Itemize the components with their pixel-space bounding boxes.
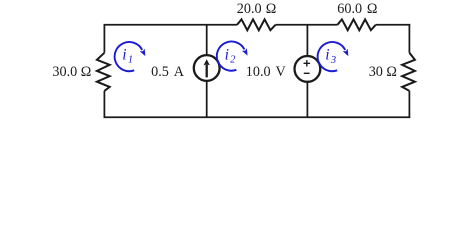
wire branch voltage source: [306, 25, 308, 117]
svg-text:30.0 Ω: 30.0 Ω: [52, 64, 91, 80]
svg-text:20.0 Ω: 20.0 Ω: [237, 1, 277, 17]
resistor 30 ohm (right vertical): [402, 53, 415, 91]
voltage source minus: [304, 72, 310, 74]
mesh arrow i2: [217, 41, 245, 70]
wire left: [103, 25, 105, 117]
voltage source plus: [304, 60, 311, 66]
svg-text:30 Ω: 30 Ω: [369, 64, 397, 80]
wire top: [104, 24, 411, 26]
wire right: [408, 25, 410, 117]
mesh arrow i3: [318, 42, 346, 71]
resistor 60.0 ohm (top right horizontal): [337, 19, 375, 30]
current source arrow: [206, 64, 208, 77]
svg-text:i1: i1: [122, 46, 133, 65]
current source circle: [194, 55, 220, 81]
svg-text:10.0 V: 10.0 V: [246, 64, 287, 80]
voltage source circle: [295, 56, 321, 82]
wire bottom: [104, 116, 411, 118]
svg-text:i3: i3: [325, 47, 336, 66]
svg-text:0.5 A: 0.5 A: [151, 64, 185, 80]
resistor 30.0 ohm (left vertical): [97, 53, 110, 91]
mesh arrow i1: [115, 42, 143, 71]
wire branch current source: [206, 25, 208, 117]
svg-text:60.0 Ω: 60.0 Ω: [337, 1, 377, 17]
svg-text:i2: i2: [225, 46, 237, 65]
resistor 20.0 ohm (top left horizontal): [237, 19, 276, 30]
